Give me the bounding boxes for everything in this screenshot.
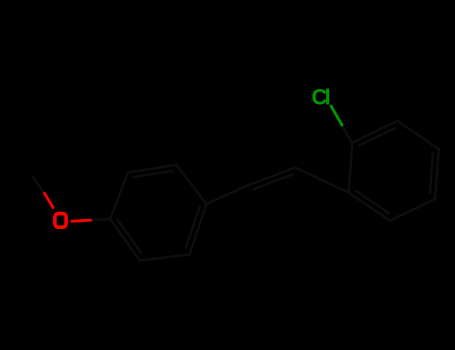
svg-text:Cl: Cl xyxy=(312,85,330,110)
